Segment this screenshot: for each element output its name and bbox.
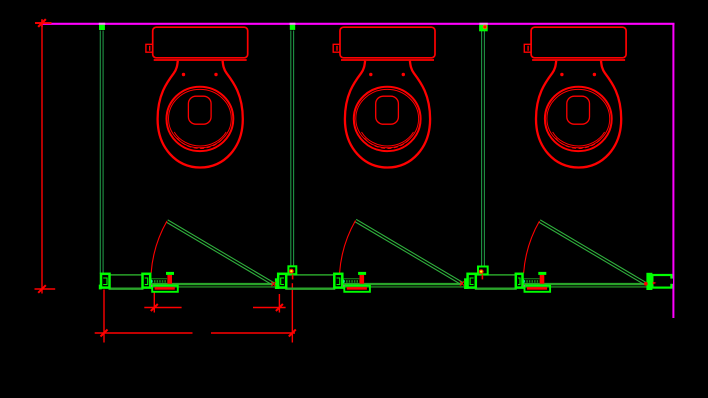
stall 3 latch cyan arc: [522, 280, 525, 283]
toilet 1 tank bolts: [182, 73, 185, 76]
toilet 1 water spot: [188, 96, 211, 124]
pilaster B2: [334, 274, 342, 288]
toilet 2 seat: [354, 87, 421, 151]
front panel bottom band: [109, 288, 144, 290]
partition 3 wall lines: [482, 31, 485, 274]
stall 2 paper holder: [344, 286, 370, 292]
stall 2 front rail: [343, 286, 468, 288]
stall 1 keeper: [167, 275, 172, 284]
partition 2 wall lines: [291, 31, 294, 275]
stall 1 door open leaf: [166, 220, 274, 285]
stall 3 front rail: [523, 286, 652, 288]
toilet 1 flush handle: [146, 44, 153, 52]
stall 1 hinge mark: [271, 282, 275, 286]
hinge filler H1: [275, 278, 279, 289]
toilet 3 tank bolts: [560, 73, 563, 76]
stall 3 latch top line: [523, 278, 540, 280]
pilaster A1: [101, 274, 110, 288]
toilet 2 inner rim: [356, 89, 419, 147]
stall 3 wall hinge bracket: [646, 273, 652, 290]
front panel bottom band: [285, 288, 335, 290]
toilet 2 water line arcs: [362, 132, 414, 146]
front panel bottom band: [475, 288, 517, 290]
stall 3 hinge pin: [644, 282, 648, 286]
stall 3 paper holder: [525, 286, 551, 292]
stall 3 latch dashes: [524, 280, 540, 283]
stall 1 front rail: [151, 286, 280, 288]
stall 1 door closed line: [151, 283, 274, 285]
toilet 1 water line arcs: [174, 132, 226, 146]
stall 2 door open leaf: [355, 219, 463, 284]
toilet 2 bowl outline: [345, 61, 430, 168]
toilet 3 tank: [531, 27, 626, 60]
dimension top tick overdraw: [35, 19, 52, 27]
stall 2 door closed line: [343, 283, 462, 285]
toilet 3 water spot: [567, 96, 590, 124]
dimension bottom long partition spacing: [95, 283, 296, 342]
dimension left vertical: [35, 19, 56, 293]
hinge bracket P3 red tick: [481, 275, 483, 280]
toilet 2 tank: [340, 27, 435, 60]
partition 3 top post: [479, 25, 488, 32]
stall 3 door swing arc: [524, 221, 540, 273]
partition 1 wall lines: [100, 31, 103, 274]
front panel top line: [476, 274, 516, 276]
stall 1 latch dashes: [151, 280, 167, 283]
stall 2 door swing arc: [340, 221, 356, 273]
stall 1 latch cyan arc: [150, 280, 153, 283]
toilet 3 flush handle: [524, 44, 531, 52]
toilet 1 seat: [167, 87, 234, 151]
toilet 1 inner rim: [169, 89, 232, 147]
toilet 3 seat: [545, 87, 612, 151]
stall 3 magenta dot: [523, 285, 525, 287]
hinge bracket P2: [288, 266, 296, 274]
hinge bracket P3: [478, 267, 488, 275]
stall 3 door closed line: [523, 283, 646, 285]
stall 2 keeper: [360, 275, 365, 284]
stall 2 latch top line: [343, 278, 360, 280]
stall 3 door open leaf: [539, 220, 647, 285]
hinge bracket P2 red tick: [292, 275, 294, 280]
stall 1 latch top line: [151, 278, 168, 280]
pilaster H2: [468, 274, 476, 288]
pilaster H1: [278, 274, 286, 288]
front panel top line: [286, 274, 334, 276]
stall 2 latch dashes: [344, 280, 360, 283]
stall 3 keeper: [540, 275, 545, 284]
stall 1 paper holder: [152, 286, 178, 292]
toilet 1 bowl outline: [158, 61, 243, 168]
pilaster B1: [143, 274, 151, 288]
dimension bottom short door opening: [144, 292, 285, 313]
stall 2 latch cyan arc: [342, 280, 345, 283]
toilet 3 bowl outline: [536, 61, 621, 168]
toilet 2 water spot: [376, 96, 399, 124]
partition 3 top hinge pin: [483, 25, 487, 29]
toilet 2 flush handle: [333, 44, 340, 52]
toilet 3 inner rim: [547, 89, 610, 147]
rear wall magenta horizontal: [41, 23, 675, 25]
toilet 3 water line arcs: [553, 132, 605, 146]
partition 1 top post: [99, 25, 105, 30]
toilet 1 tank: [153, 27, 248, 60]
toilet 2 tank bolts: [369, 73, 372, 76]
stall 1 door swing arc: [151, 221, 167, 273]
stall 1 magenta dot: [150, 285, 152, 287]
stall 2 magenta dot: [342, 285, 344, 287]
partition 2 top post: [290, 25, 295, 30]
hinge filler H2: [464, 278, 468, 289]
pilaster A1 foot: [99, 285, 102, 290]
stall 2 hinge mark: [460, 281, 464, 285]
right wall magenta vertical: [672, 23, 674, 318]
pilaster B3: [516, 274, 523, 288]
front panel top line: [110, 274, 143, 276]
